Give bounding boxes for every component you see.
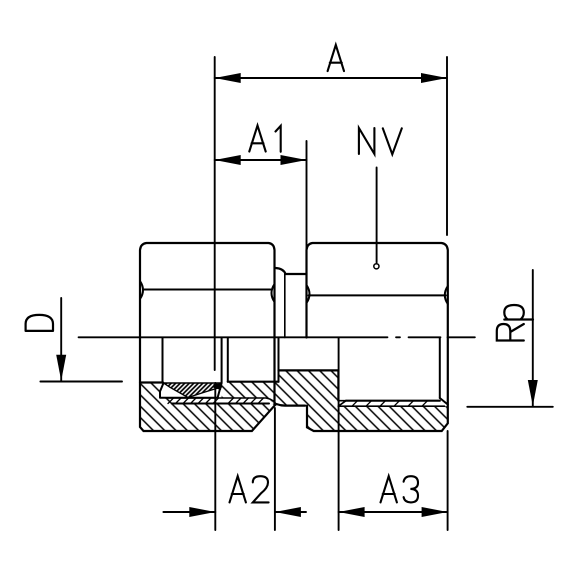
Rp thread crest line	[338, 405, 444, 407]
label A	[328, 45, 344, 71]
bore line at stop	[228, 381, 279, 383]
Rp entry chamfer	[440, 398, 448, 405]
middle section bottom	[276, 404, 305, 406]
left nut outline	[140, 243, 276, 431]
body hatch region	[222, 370, 448, 431]
dimension A line	[215, 77, 447, 79]
Rp thread marks	[352, 401, 428, 407]
centerline	[79, 336, 475, 338]
tube stop shoulder	[227, 338, 229, 382]
body face lens arc left	[307, 285, 310, 303]
male thread end edge	[284, 274, 286, 338]
dimension Rp extension line	[467, 406, 553, 408]
ferrule	[164, 383, 222, 398]
nut section bore line	[140, 381, 163, 383]
Rp thread entry chamfer edge	[439, 338, 441, 399]
ferrule nose dark tip	[214, 383, 223, 390]
bore step edge	[278, 338, 280, 382]
dimension A2 extension lines	[214, 383, 216, 530]
dimension A2 line with outside arrows	[163, 511, 215, 513]
dimension A3 extension lines	[338, 338, 340, 531]
dimension Rp arrow	[532, 270, 534, 406]
dimension D extension line	[40, 381, 122, 383]
tube stop face	[221, 338, 223, 384]
NV leader line	[376, 168, 378, 263]
Rp thread bore line	[346, 400, 440, 402]
nut inner bore step edge	[162, 338, 164, 383]
body outline	[307, 243, 448, 431]
NV leader dot	[374, 264, 379, 269]
label Rp (rotated)	[497, 305, 533, 341]
dimension A1 extension line right	[306, 141, 308, 250]
flow bore line	[279, 369, 339, 371]
body hex face line	[309, 294, 446, 296]
nut thread minor line	[166, 398, 277, 405]
dimension A extension line right	[446, 57, 448, 235]
nut hatch region	[140, 383, 276, 432]
nut thread marks	[168, 398, 264, 404]
label A1	[249, 126, 265, 152]
Rp thread runout	[338, 401, 346, 407]
nut hex face line	[143, 289, 271, 291]
nut face lens arc left	[140, 281, 143, 299]
nut thread major line	[172, 403, 269, 405]
dimension D arrow	[60, 298, 62, 381]
middle section top	[276, 268, 307, 274]
Rp thread shoulder edge	[337, 370, 339, 400]
nut chamber wall	[160, 383, 222, 398]
label A2	[230, 476, 246, 502]
dimension A1 line	[215, 159, 307, 161]
nut face lens arc right	[272, 284, 275, 302]
label A3	[381, 476, 397, 502]
dimension A extension line left	[214, 57, 216, 370]
dimension A3 line	[339, 511, 448, 513]
body face lens arc right	[445, 286, 448, 304]
label D (rotated)	[26, 315, 53, 331]
label NV	[359, 128, 375, 154]
